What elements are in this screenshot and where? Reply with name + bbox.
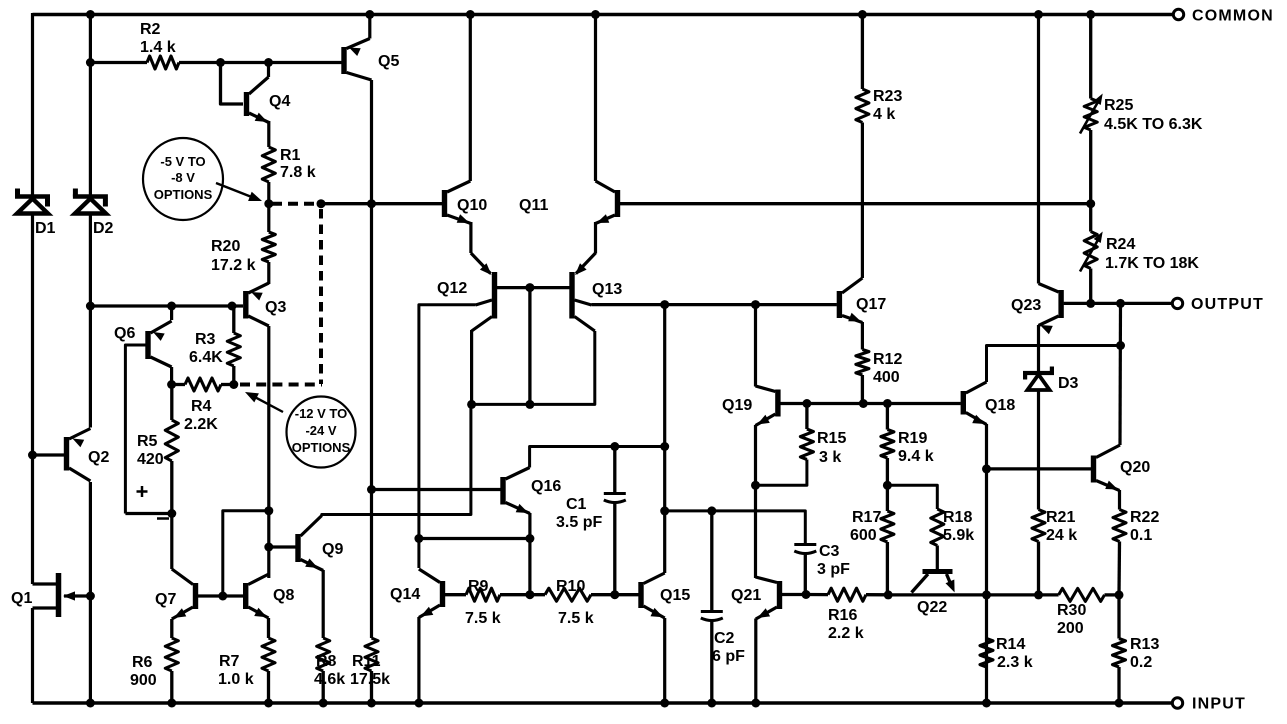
resistor R5 420	[137, 385, 178, 469]
node: top rail / Q11 collector	[591, 10, 600, 19]
wire: Q3 base line	[90, 304, 243, 307]
transistor Q2	[64, 429, 110, 482]
node: Q4 collector junction	[264, 58, 273, 67]
svg-text:Q10: Q10	[457, 197, 487, 214]
transistor Q22	[912, 569, 955, 616]
wire: link to R18	[887, 485, 937, 509]
wire: dashed option link horizontal	[272, 202, 316, 206]
wire: Q6 collector to R4 node	[170, 367, 173, 385]
svg-text:4.6k: 4.6k	[314, 671, 345, 688]
wire: R20 to Q3 emitter	[267, 262, 270, 284]
wire: dashed option to R4	[240, 383, 322, 387]
wire: link to R15 bottom	[756, 460, 807, 486]
wire: Q5 collector long vertical to R11	[370, 80, 373, 638]
svg-text:Q7: Q7	[155, 591, 176, 608]
node: bottom rail / C2	[707, 699, 716, 708]
svg-text:Q20: Q20	[1120, 459, 1150, 476]
resistor R19 9.4k	[881, 404, 934, 466]
wire: Q16 collector up and over	[530, 447, 665, 468]
resistor R15 3k	[800, 404, 846, 467]
wire: y538 link	[419, 537, 530, 540]
node: R30/R22/R13 junction	[1115, 590, 1124, 599]
wire: R21 bottom lead	[1037, 542, 1040, 595]
wire: Q7-Q8 base link	[198, 594, 243, 597]
transistor Q12	[437, 253, 497, 331]
svg-text:R23: R23	[873, 88, 902, 105]
node: C2 top junction	[707, 506, 716, 515]
svg-text:17.2 k: 17.2 k	[211, 257, 256, 274]
svg-text:4 k: 4 k	[873, 106, 895, 123]
wire: base node riser	[223, 511, 269, 596]
wire: R5 to low node	[170, 461, 173, 514]
svg-text:Q16: Q16	[531, 478, 561, 495]
svg-text:COMMON: COMMON	[1192, 8, 1274, 25]
wire: R16 leads	[806, 593, 888, 597]
svg-text:R2: R2	[140, 21, 161, 38]
resistor R24 1.7K-18K (variable)	[1080, 204, 1199, 304]
transistor Q20	[1091, 445, 1151, 491]
resistor R16 2.2k	[828, 588, 866, 642]
wire: D3 to R21	[1037, 390, 1040, 510]
wire: R3 to R4 node	[232, 366, 235, 385]
svg-text:Q12: Q12	[437, 280, 467, 297]
svg-text:R24: R24	[1106, 236, 1135, 253]
svg-text:400: 400	[873, 369, 900, 386]
transistor Q8	[243, 574, 294, 618]
wire: left rail lower segment	[31, 608, 34, 703]
wire: Q17 collector to R23	[861, 123, 864, 279]
svg-text:C2: C2	[714, 630, 735, 647]
node: Q7/Q8 base feed junction	[264, 506, 273, 515]
wire: Q1 drain stub	[33, 582, 58, 585]
wire: Q21 emitter to rail	[754, 619, 757, 704]
transistor Q14	[390, 569, 445, 618]
wire: y595 line to R21	[987, 593, 1039, 596]
node: bottom rail / R6	[167, 699, 176, 708]
transistor Q6	[114, 306, 172, 367]
svg-text:Q13: Q13	[592, 281, 622, 298]
node: R2 left junction	[86, 58, 95, 67]
node: output riser / Q18 collector line	[1116, 341, 1125, 350]
node: top rail / D2 branch	[86, 10, 95, 19]
node: R12 bottom junction	[859, 399, 868, 408]
svg-text:INPUT: INPUT	[1192, 696, 1246, 713]
transistor Q17	[837, 278, 887, 323]
wire: R2 row	[90, 61, 344, 64]
svg-text:R1: R1	[280, 147, 301, 164]
wire: Q2 base lead	[33, 453, 65, 456]
node: bottom rail / R7	[264, 699, 273, 708]
svg-text:R21: R21	[1046, 509, 1075, 526]
resistor R22 0.1	[1113, 509, 1159, 544]
svg-text:D3: D3	[1058, 375, 1079, 392]
wire: R8 to rail	[322, 671, 325, 703]
node: Q4 base loop junction	[216, 58, 225, 67]
node: top rail / R25	[1086, 10, 1095, 19]
wire: option node to Q10 base	[321, 202, 442, 205]
resistor R1 7.8k	[262, 147, 315, 182]
node: R9/R10 junction	[525, 590, 534, 599]
node: R19 top junction	[883, 399, 892, 408]
node: Q15 column / C1 line	[660, 442, 669, 451]
label: -12V to -24V options circle	[245, 392, 356, 468]
transistor Q19	[722, 386, 781, 426]
resistor R17 600	[850, 509, 894, 595]
wire: Q11 emitter drop	[594, 222, 597, 254]
wire: Q6 base lead	[125, 345, 145, 514]
transistor Q5	[341, 15, 399, 81]
svg-text:900: 900	[130, 672, 157, 689]
diode D3 (zener)	[1023, 367, 1079, 393]
svg-text:Q17: Q17	[856, 296, 886, 313]
svg-text:24 k: 24 k	[1046, 527, 1077, 544]
svg-text:0.2: 0.2	[1130, 654, 1152, 671]
node: C1 top junction	[610, 442, 619, 451]
wire: R4 leads	[172, 383, 234, 386]
resistor R25 4.5K-6.3K (variable)	[1080, 15, 1203, 204]
svg-text:R8: R8	[316, 653, 337, 670]
wire: Q19 collector riser	[754, 305, 757, 387]
wire: Q9 collector line to Q12 branch	[322, 404, 471, 516]
terminal COMMON	[1173, 8, 1274, 25]
wire: Q9 emitter to R8	[322, 570, 325, 638]
svg-text:R17: R17	[852, 509, 881, 526]
svg-text:Q23: Q23	[1011, 297, 1041, 314]
transistor Q18	[961, 382, 1016, 425]
wire: Q23 emitter to D3	[1037, 325, 1040, 371]
svg-text:3 pF: 3 pF	[817, 561, 850, 578]
label: plus polarity mark	[137, 486, 148, 497]
wire: R17 top lead	[886, 485, 889, 511]
svg-text:-12 V TO: -12 V TO	[295, 406, 348, 421]
wire: bottom INPUT rail	[33, 701, 1173, 705]
wire: Q11 base line to R24/R25 node	[620, 202, 1091, 205]
svg-text:R20: R20	[211, 238, 240, 255]
node: mirror line / base drop	[525, 400, 534, 409]
svg-text:Q2: Q2	[88, 449, 109, 466]
wire: Q23 base lead / OUTPUT line	[1064, 302, 1172, 305]
transistor Q15	[638, 573, 690, 618]
svg-text:1.7K TO 18K: 1.7K TO 18K	[1105, 255, 1199, 272]
capacitor C3 3pF	[794, 543, 850, 595]
label: -5V to -8V options circle	[143, 138, 262, 220]
svg-text:R25: R25	[1104, 97, 1133, 114]
svg-text:R9: R9	[468, 578, 489, 595]
resistor R23 4k	[856, 15, 903, 124]
node: bottom rail / R14	[982, 699, 991, 708]
svg-text:Q21: Q21	[731, 587, 761, 604]
wire: R13 leads	[1117, 595, 1120, 703]
node: R4 right junction	[229, 380, 238, 389]
label: small tick under node	[157, 517, 169, 520]
node: Q2 base junction	[28, 451, 37, 460]
resistor R6 900	[130, 638, 178, 689]
node: bottom rail / Q15	[660, 699, 669, 708]
resistor R11 17.5k	[350, 638, 390, 688]
terminal OUTPUT	[1172, 296, 1264, 313]
node: R3 top junction	[228, 302, 237, 311]
svg-text:-5 V TO: -5 V TO	[160, 154, 205, 169]
node: Q19 collector column top	[751, 300, 760, 309]
wire: Q8 emitter to R7	[267, 618, 270, 638]
node: Q11 base line / R25-R24 junction	[1086, 199, 1095, 208]
svg-text:R3: R3	[195, 331, 216, 348]
node: -5V option node	[264, 199, 273, 208]
resistor R7 1.0k	[218, 638, 275, 688]
svg-text:-8 V: -8 V	[171, 170, 195, 185]
svg-text:420: 420	[137, 451, 164, 468]
transistor Q16	[500, 468, 561, 514]
resistor R4 2.2K	[184, 378, 221, 433]
node: bottom rail / Q14	[414, 699, 423, 708]
capacitor C1 3.5pF	[556, 447, 626, 595]
wire: R7 to rail	[267, 671, 270, 703]
resistor R9 7.5k	[465, 578, 501, 627]
wire: Q14 emitter to rail	[417, 617, 420, 703]
wire: Q3 collector long vertical	[267, 326, 270, 578]
node: R4 left junction	[167, 380, 176, 389]
svg-text:Q3: Q3	[265, 299, 286, 316]
svg-text:R5: R5	[137, 433, 158, 450]
node: Q3 base line junction on x90 wire	[86, 302, 95, 311]
svg-text:R22: R22	[1130, 509, 1159, 526]
resistor R8 4.6k	[314, 638, 345, 688]
wire: Q19 base line to Q18	[781, 402, 961, 405]
wire: Q4 base loop	[221, 63, 244, 105]
node: R17 bottom junction	[884, 590, 893, 599]
svg-text:R13: R13	[1130, 636, 1159, 653]
wire: option node to R20	[267, 204, 270, 232]
resistor R13 0.2	[1113, 636, 1160, 671]
wire: Q20 collector riser	[1118, 303, 1122, 445]
svg-text:Q22: Q22	[917, 599, 947, 616]
transistor Q7	[155, 569, 198, 619]
svg-text:2.3 k: 2.3 k	[997, 654, 1033, 671]
svg-text:D2: D2	[93, 220, 114, 237]
svg-text:1.4 k: 1.4 k	[140, 39, 176, 56]
node: Q9 base junction	[264, 543, 273, 552]
resistor R2 1.4k	[140, 21, 179, 69]
node: Q1 gate junction	[86, 592, 95, 601]
terminal INPUT	[1172, 696, 1246, 713]
svg-text:Q8: Q8	[273, 587, 294, 604]
svg-text:R30: R30	[1057, 602, 1086, 619]
transistor Q13	[569, 253, 622, 331]
transistor Q21	[731, 577, 782, 619]
svg-text:Q5: Q5	[378, 53, 399, 70]
node: mirror line / Q12 collector	[467, 400, 476, 409]
node: Q19 emitter junction	[751, 481, 760, 490]
resistor R14 2.3k	[980, 636, 1033, 671]
svg-text:R10: R10	[556, 578, 585, 595]
svg-text:1.0 k: 1.0 k	[218, 671, 254, 688]
node: Q15 column / y511 line	[660, 506, 669, 515]
wire: Q10 emitter drop	[469, 222, 472, 253]
wire: Q21 base lead	[782, 593, 806, 596]
transistor Q10	[442, 15, 488, 224]
transistor Q3	[243, 283, 286, 326]
node: R17/R18 feed junction	[883, 481, 892, 490]
svg-text:Q19: Q19	[722, 397, 752, 414]
svg-text:R6: R6	[132, 654, 153, 671]
node: Q6 emitter junction	[167, 302, 176, 311]
svg-text:C1: C1	[566, 496, 587, 513]
node: Q15 collector column top	[660, 300, 669, 309]
wire: R11 to bottom rail	[370, 671, 373, 703]
node: top rail / R23	[858, 10, 867, 19]
svg-text:Q4: Q4	[269, 93, 290, 110]
svg-text:D1: D1	[35, 220, 56, 237]
transistor Q4	[244, 63, 291, 123]
svg-text:Q14: Q14	[390, 586, 420, 603]
node: top rail / Q5 emitter	[365, 10, 374, 19]
svg-text:R19: R19	[898, 430, 927, 447]
svg-text:R7: R7	[219, 653, 240, 670]
wire: D2 anode to Q2 emitter	[89, 215, 92, 428]
node: Q16 emitter / y538 link	[525, 534, 534, 543]
wire: y595 line under Q22	[888, 593, 986, 596]
wire: base mirror drop	[528, 288, 531, 405]
svg-text:R12: R12	[873, 351, 902, 368]
wire: Q9 base lead	[269, 545, 296, 548]
transistor Q11	[519, 15, 620, 224]
diode D1	[15, 189, 56, 238]
svg-text:R16: R16	[828, 607, 857, 624]
svg-text:C3: C3	[819, 543, 840, 560]
node: Q16 base / Q5 collector	[367, 485, 376, 494]
wire: R30 leads	[1039, 593, 1120, 596]
diode D2	[73, 189, 114, 238]
svg-text:9.4 k: 9.4 k	[898, 448, 934, 465]
resistor R30 200	[1057, 588, 1105, 637]
svg-text:Q11: Q11	[519, 197, 548, 214]
node: dashed option junction	[317, 199, 326, 208]
node: option line / Q5 collector	[367, 199, 376, 208]
capacitor C2 6pF	[701, 511, 745, 703]
wire: R9 R10 base row	[445, 593, 639, 596]
node: Q20 base line junction	[982, 464, 991, 473]
svg-text:2.2 k: 2.2 k	[828, 625, 864, 642]
wire: Q20 emitter to R22	[1118, 490, 1121, 510]
node: x419 / y538 junction	[414, 534, 423, 543]
node: Q7/Q8 base junction	[218, 592, 227, 601]
svg-text:600: 600	[850, 527, 877, 544]
svg-text:3.5 pF: 3.5 pF	[556, 514, 602, 531]
resistor R10 7.5k	[545, 578, 594, 627]
svg-text:7.5 k: 7.5 k	[558, 610, 594, 627]
svg-text:R4: R4	[191, 398, 212, 415]
svg-text:7.8 k: 7.8 k	[280, 164, 316, 181]
svg-text:OPTIONS: OPTIONS	[154, 187, 213, 202]
svg-text:R11: R11	[352, 653, 381, 670]
wire: R1 to option node	[267, 182, 270, 204]
wire: mirror bottom line	[472, 331, 595, 404]
wire: Q18 collector riser and over	[987, 346, 1121, 383]
node: bottom rail / R8	[319, 699, 328, 708]
transistor Q9	[295, 516, 343, 571]
wire: Q15 emitter to rail	[663, 618, 666, 703]
node: C1 bottom junction	[610, 590, 619, 599]
wire: y511 line to C3 corner	[665, 511, 806, 544]
node: bottom rail / Q2 collector	[86, 699, 95, 708]
resistor R21 24k	[1032, 509, 1077, 544]
svg-text:3 k: 3 k	[819, 449, 841, 466]
wire: R5 node down to Q7 collector	[170, 514, 173, 570]
svg-text:4.5K TO 6.3K: 4.5K TO 6.3K	[1104, 116, 1203, 133]
wire: R6 to rail	[170, 671, 173, 703]
transistor Q1	[11, 573, 90, 617]
wire: Q16 base lead	[372, 488, 501, 491]
svg-text:R14: R14	[996, 636, 1025, 653]
wire: Q13 right collector line	[592, 303, 837, 306]
wire: Q7 emitter to R6	[170, 619, 173, 638]
node: R15 top junction	[802, 399, 811, 408]
wire: left rail mid segment (D1 anode to Q1 drain)	[31, 215, 34, 585]
wire: Q4 emitter to R1	[267, 121, 270, 147]
wire: dashed option vertical	[319, 209, 323, 384]
node: top rail / Q23 collector	[1034, 10, 1043, 19]
wire: R12 to base line	[861, 375, 864, 404]
wire: Q12 lower collector drop	[470, 330, 473, 404]
node: output line / Q20 riser	[1116, 299, 1125, 308]
transistor Q23	[1011, 284, 1064, 335]
wire: R19 to R17 node	[886, 458, 889, 485]
wire: top COMMON rail	[33, 13, 1174, 17]
node: Q21 base / C3 / R16 junction	[802, 590, 811, 599]
svg-text:Q1: Q1	[11, 590, 32, 607]
svg-text:Q6: Q6	[114, 325, 135, 342]
resistor R18 5.9k	[931, 509, 974, 546]
wire: left rail upper segment	[31, 13, 34, 195]
svg-text:7.5 k: 7.5 k	[465, 610, 501, 627]
wire: Q12 left collector to x419 branch	[419, 305, 476, 568]
svg-text:R15: R15	[817, 430, 846, 447]
node: R14 top junction	[982, 590, 991, 599]
svg-text:Q9: Q9	[322, 541, 343, 558]
svg-text:Q18: Q18	[985, 397, 1015, 414]
wire: Q12 base link	[497, 286, 570, 289]
svg-text:0.1: 0.1	[1130, 527, 1152, 544]
node: bottom rail / R11	[367, 699, 376, 708]
wire: Q18 emitter / R14 column	[985, 424, 988, 703]
svg-text:OPTIONS: OPTIONS	[292, 440, 351, 455]
wire: Q15 collector column	[663, 305, 666, 573]
wire: Q2 collector down to bottom rail	[89, 482, 92, 703]
node: bottom rail / Q21	[751, 699, 760, 708]
node: top rail / Q10 collector	[466, 10, 475, 19]
svg-text:R18: R18	[943, 509, 972, 526]
wire: Q17 emitter to R12	[861, 322, 864, 350]
svg-text:6 pF: 6 pF	[712, 648, 745, 665]
wire: Q19 emitter / Q21 collector column	[754, 425, 757, 578]
wire: D2 branch upper	[89, 15, 92, 195]
svg-text:2.2K: 2.2K	[184, 416, 218, 433]
wire: Q20 base line	[987, 467, 1092, 470]
wire: Q1 source stub	[33, 606, 58, 609]
svg-text:6.4K: 6.4K	[189, 349, 223, 366]
resistor R20 17.2k	[211, 232, 275, 274]
resistor R3 6.4K	[189, 306, 240, 366]
node: bottom rail / R13	[1115, 699, 1124, 708]
wire: Q23 collector to COMMON	[1037, 15, 1040, 284]
svg-text:200: 200	[1057, 620, 1084, 637]
svg-text:-24 V: -24 V	[305, 423, 336, 438]
node: R21 bottom junction	[1034, 590, 1043, 599]
wire: Q16 emitter drop	[528, 513, 531, 595]
svg-text:Q15: Q15	[660, 587, 690, 604]
svg-text:5.9k: 5.9k	[943, 527, 974, 544]
node: R24 bottom / output junction	[1086, 299, 1095, 308]
